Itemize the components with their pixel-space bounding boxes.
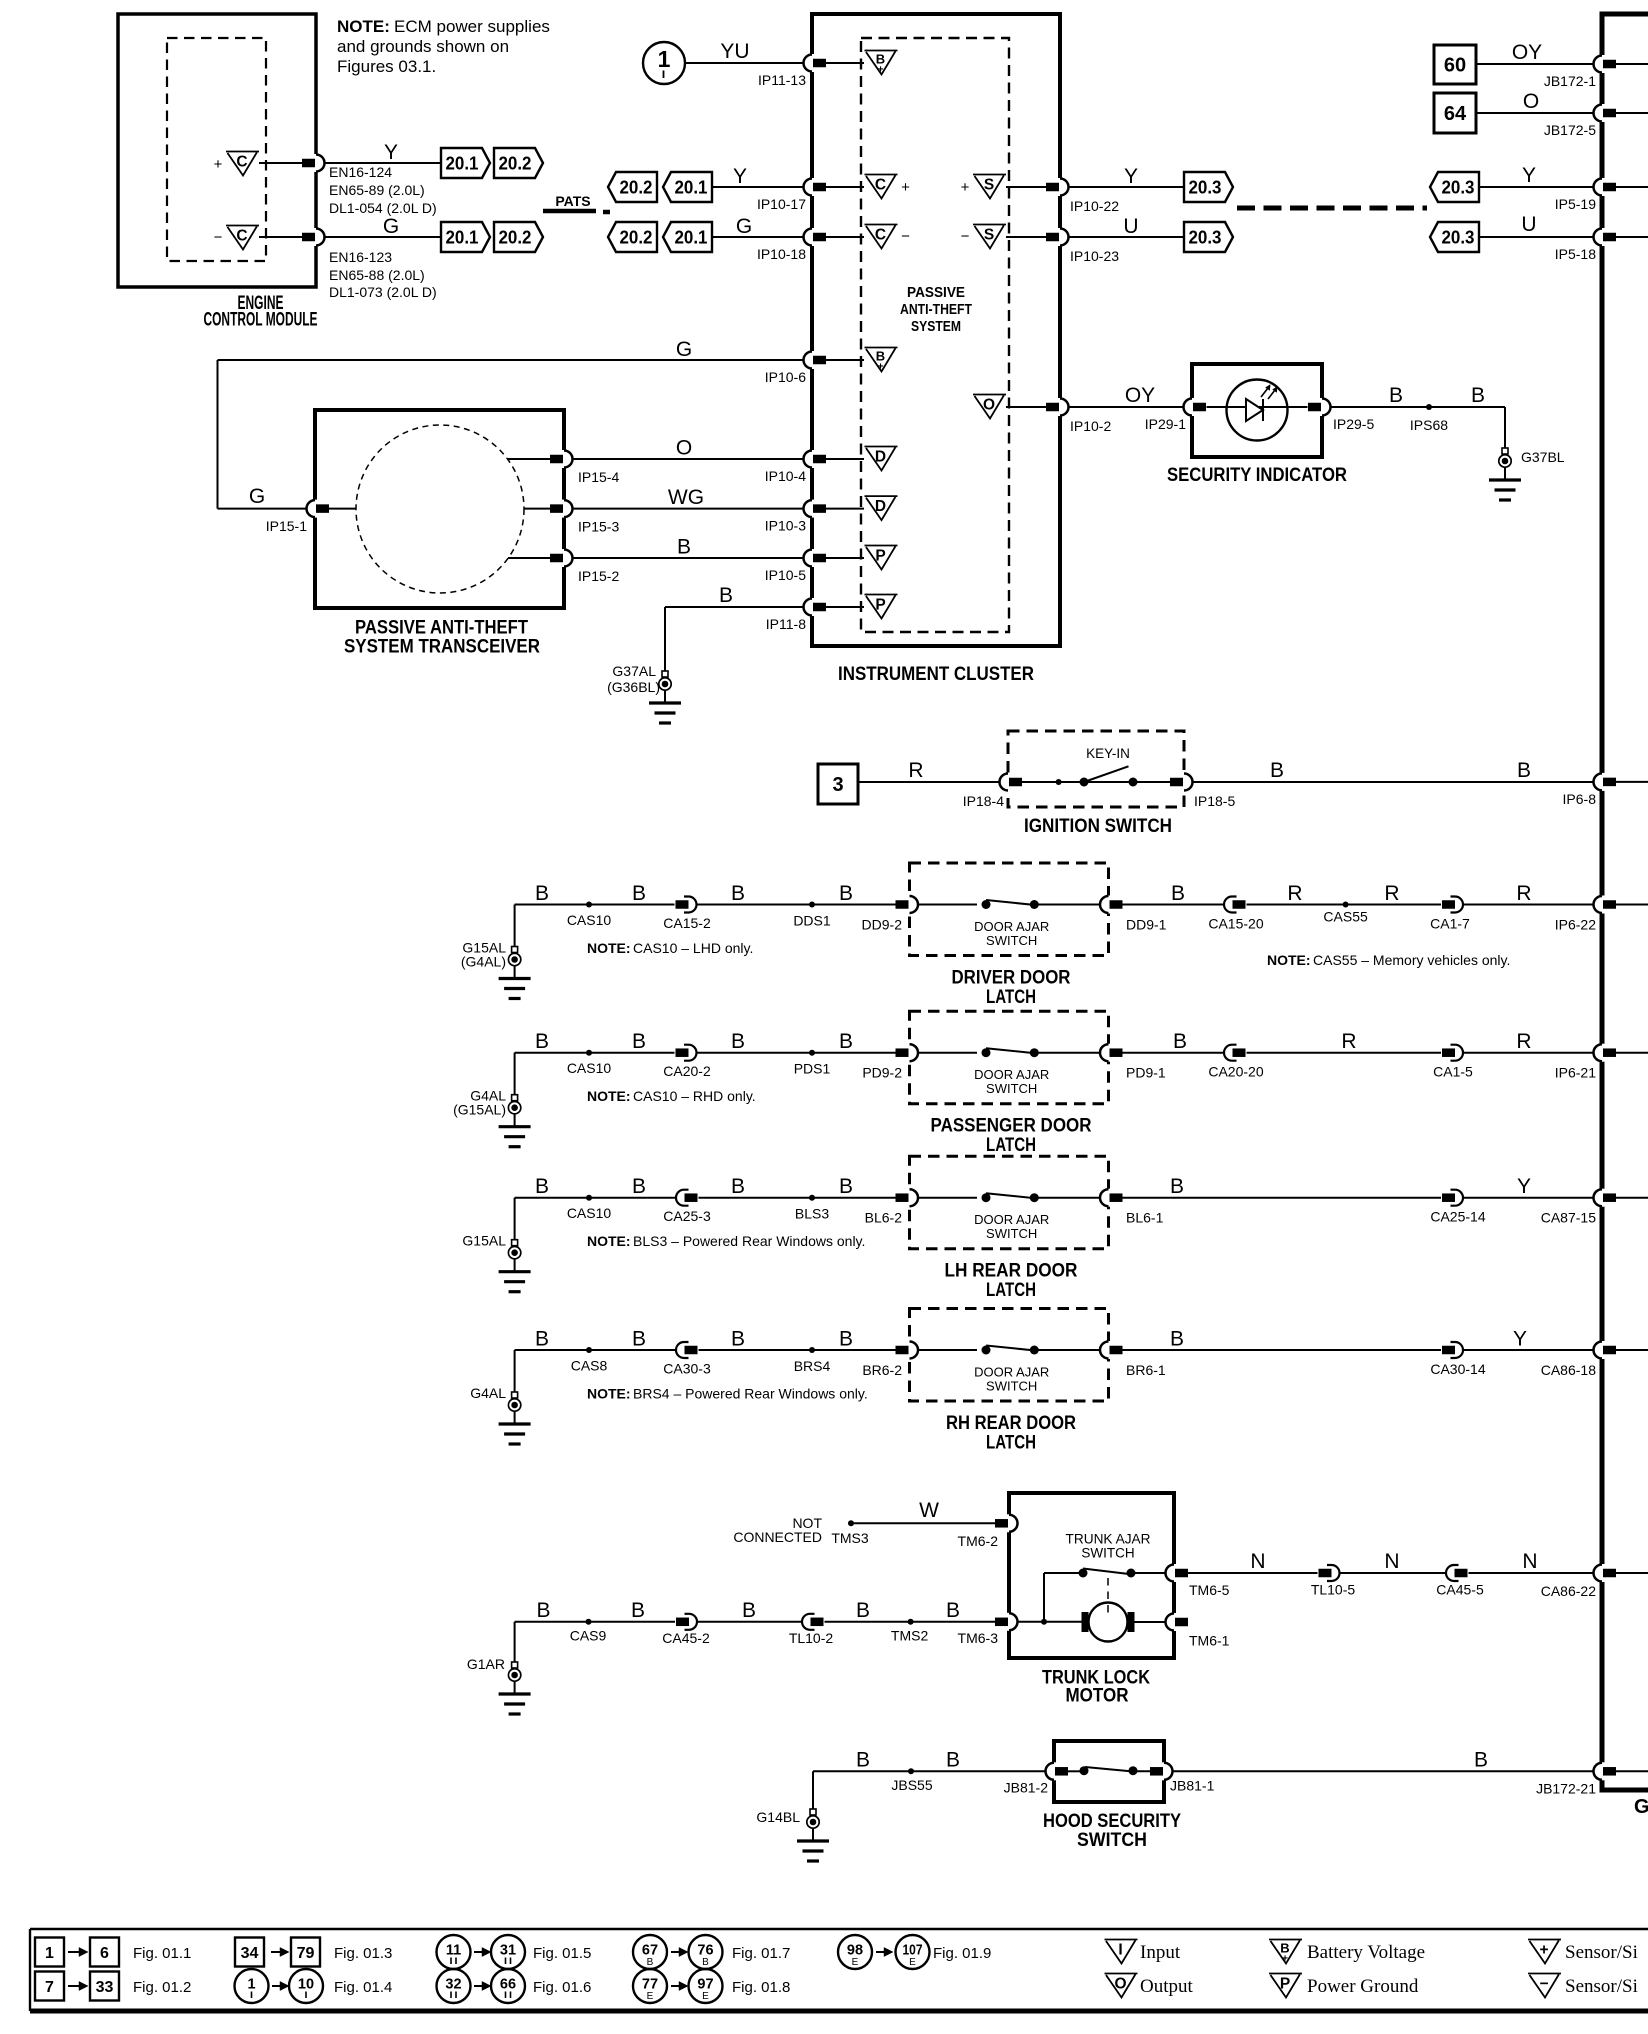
svg-text:TM6-3: TM6-3: [958, 1630, 999, 1646]
svg-text:EN65-89 (2.0L): EN65-89 (2.0L): [329, 182, 425, 198]
svg-text:20.3: 20.3: [1189, 228, 1222, 248]
svg-text:B: B: [946, 1599, 960, 1622]
svg-text:LATCH: LATCH: [986, 1135, 1036, 1156]
svg-text:B: B: [1170, 1175, 1184, 1198]
svg-text:Fig. 01.9: Fig. 01.9: [933, 1945, 991, 1962]
svg-text:CA86-22: CA86-22: [1541, 1583, 1596, 1599]
svg-text:S: S: [984, 227, 994, 244]
svg-text:+: +: [878, 362, 884, 373]
svg-text:−: −: [214, 229, 223, 246]
svg-text:BRS4: BRS4: [794, 1358, 831, 1374]
svg-text:CA20-20: CA20-20: [1208, 1064, 1263, 1080]
svg-text:SYSTEM TRANSCEIVER: SYSTEM TRANSCEIVER: [344, 637, 540, 658]
svg-text:JBS55: JBS55: [891, 1777, 932, 1793]
svg-text:DL1-054 (2.0L D): DL1-054 (2.0L D): [329, 200, 437, 216]
svg-text:PASSIVE: PASSIVE: [907, 284, 965, 301]
svg-text:SWITCH: SWITCH: [1081, 1546, 1134, 1561]
svg-text:O: O: [676, 436, 692, 459]
svg-text:JB172-1: JB172-1: [1544, 73, 1596, 89]
svg-text:DOOR AJAR: DOOR AJAR: [974, 919, 1049, 934]
svg-text:79: 79: [297, 1945, 315, 1962]
svg-text:20.1: 20.1: [675, 228, 708, 248]
svg-text:IP6-22: IP6-22: [1555, 917, 1596, 933]
svg-text:BL6-2: BL6-2: [865, 1210, 903, 1226]
svg-text:W: W: [919, 1499, 939, 1522]
svg-text:PD9-1: PD9-1: [1126, 1065, 1166, 1081]
svg-text:DOOR AJAR: DOOR AJAR: [974, 1067, 1049, 1082]
svg-text:G1AR: G1AR: [467, 1656, 505, 1672]
svg-text:B: B: [946, 1748, 960, 1771]
svg-text:34: 34: [241, 1945, 259, 1962]
svg-text:N: N: [1250, 1550, 1265, 1573]
svg-text:B: B: [731, 1328, 745, 1351]
svg-text:B: B: [535, 882, 549, 905]
svg-text:Sensor/Si: Sensor/Si: [1565, 1976, 1638, 1997]
svg-text:1: 1: [247, 1977, 255, 1993]
svg-text:60: 60: [1444, 55, 1466, 77]
svg-text:TM6-2: TM6-2: [958, 1533, 999, 1549]
svg-text:BL6-1: BL6-1: [1126, 1210, 1164, 1226]
svg-text:ECM power supplies: ECM power supplies: [394, 17, 550, 36]
svg-text:U: U: [1521, 213, 1536, 236]
svg-text:CAS9: CAS9: [570, 1628, 607, 1644]
svg-text:Y: Y: [384, 141, 398, 164]
svg-text:Battery Voltage: Battery Voltage: [1307, 1942, 1425, 1963]
svg-text:6: 6: [100, 1945, 109, 1962]
svg-text:JB172-5: JB172-5: [1544, 122, 1596, 138]
svg-text:TM6-1: TM6-1: [1189, 1633, 1230, 1649]
svg-text:O: O: [983, 397, 995, 414]
svg-text:20.1: 20.1: [446, 228, 479, 248]
svg-text:G: G: [249, 485, 265, 508]
svg-text:BLS3 – Powered Rear Windows on: BLS3 – Powered Rear Windows only.: [633, 1233, 865, 1249]
svg-text:CA45-5: CA45-5: [1436, 1582, 1484, 1598]
svg-text:Y: Y: [1517, 1175, 1531, 1198]
svg-text:20.2: 20.2: [620, 178, 653, 198]
svg-text:IP5-19: IP5-19: [1555, 196, 1596, 212]
svg-text:CA45-2: CA45-2: [662, 1630, 710, 1646]
svg-text:20.2: 20.2: [620, 228, 653, 248]
svg-text:G: G: [383, 215, 399, 238]
svg-text:S: S: [984, 177, 994, 194]
svg-text:NOTE:: NOTE:: [337, 17, 390, 36]
svg-text:B: B: [647, 1957, 654, 1968]
svg-text:N: N: [1384, 1550, 1399, 1573]
svg-text:1: 1: [658, 46, 671, 72]
svg-text:DOOR AJAR: DOOR AJAR: [974, 1212, 1049, 1227]
svg-text:O: O: [1523, 90, 1539, 113]
svg-text:D: D: [875, 498, 886, 515]
svg-text:TMS2: TMS2: [891, 1628, 929, 1644]
svg-text:TRUNK AJAR: TRUNK AJAR: [1066, 1532, 1151, 1547]
svg-text:+: +: [901, 179, 910, 196]
svg-text:P: P: [875, 548, 885, 565]
svg-text:Fig. 01.4: Fig. 01.4: [334, 1979, 392, 1996]
svg-text:WG: WG: [668, 486, 704, 509]
svg-text:TL10-2: TL10-2: [789, 1630, 834, 1646]
svg-text:B: B: [535, 1030, 549, 1053]
svg-text:B: B: [632, 882, 646, 905]
svg-text:TM6-5: TM6-5: [1189, 1582, 1230, 1598]
svg-text:SYSTEM: SYSTEM: [911, 318, 961, 335]
svg-text:G4AL: G4AL: [470, 1385, 506, 1401]
svg-text:CA86-18: CA86-18: [1541, 1362, 1596, 1378]
svg-text:BR6-2: BR6-2: [862, 1362, 902, 1378]
svg-text:IP10-22: IP10-22: [1070, 198, 1119, 214]
svg-text:NOTE:: NOTE:: [587, 1233, 631, 1249]
svg-text:LATCH: LATCH: [986, 1280, 1036, 1301]
svg-text:10: 10: [298, 1977, 314, 1993]
svg-text:7: 7: [45, 1979, 54, 1996]
svg-text:20.3: 20.3: [1442, 228, 1475, 248]
svg-text:CONTROL MODULE: CONTROL MODULE: [204, 310, 318, 331]
svg-text:G: G: [676, 338, 692, 361]
svg-text:B: B: [1171, 882, 1185, 905]
svg-text:R: R: [1287, 882, 1302, 905]
svg-text:IPS68: IPS68: [1410, 417, 1448, 433]
svg-text:B: B: [1389, 384, 1403, 407]
svg-text:G37BL: G37BL: [1521, 449, 1565, 465]
svg-text:Fig. 01.3: Fig. 01.3: [334, 1945, 392, 1962]
svg-text:R: R: [1516, 882, 1531, 905]
svg-text:E: E: [852, 1957, 859, 1968]
svg-text:G14BL: G14BL: [756, 1809, 800, 1825]
svg-text:G37AL: G37AL: [612, 663, 656, 679]
svg-text:P: P: [875, 597, 885, 614]
svg-text:CA87-15: CA87-15: [1541, 1210, 1596, 1226]
svg-text:I: I: [1118, 1942, 1122, 1959]
svg-text:CAS8: CAS8: [571, 1358, 608, 1374]
svg-text:SWITCH: SWITCH: [986, 1081, 1037, 1096]
svg-text:Input: Input: [1140, 1942, 1181, 1963]
svg-text:CONNECTED: CONNECTED: [733, 1529, 822, 1545]
svg-text:B: B: [856, 1599, 870, 1622]
svg-text:NOTE:: NOTE:: [587, 1088, 631, 1104]
svg-text:33: 33: [96, 1979, 114, 1996]
svg-text:IGNITION SWITCH: IGNITION SWITCH: [1024, 816, 1172, 837]
svg-text:CAS10: CAS10: [567, 912, 612, 928]
svg-text:BLS3: BLS3: [795, 1206, 829, 1222]
svg-text:Fig. 01.6: Fig. 01.6: [533, 1979, 591, 1996]
svg-text:CA15-20: CA15-20: [1208, 916, 1263, 932]
svg-text:IP5-18: IP5-18: [1555, 246, 1596, 262]
svg-text:YU: YU: [720, 40, 749, 63]
svg-text:U: U: [1123, 215, 1138, 238]
svg-text:G: G: [736, 215, 752, 238]
svg-text:B: B: [1471, 384, 1485, 407]
svg-text:BRS4 – Powered Rear Windows on: BRS4 – Powered Rear Windows only.: [633, 1386, 868, 1402]
svg-text:20.1: 20.1: [446, 154, 479, 174]
svg-text:IP10-17: IP10-17: [757, 196, 806, 212]
svg-text:Y: Y: [1124, 165, 1138, 188]
svg-text:IP6-21: IP6-21: [1555, 1065, 1596, 1081]
svg-text:RH REAR DOOR: RH REAR DOOR: [946, 1413, 1076, 1434]
svg-text:B: B: [677, 535, 691, 558]
svg-text:66: 66: [500, 1977, 516, 1993]
svg-text:IP18-5: IP18-5: [1194, 793, 1235, 809]
svg-text:−: −: [961, 228, 970, 245]
svg-text:Fig. 01.2: Fig. 01.2: [133, 1979, 191, 1996]
svg-text:C: C: [236, 154, 247, 171]
svg-text:B: B: [632, 1328, 646, 1351]
svg-text:−: −: [901, 228, 910, 245]
svg-text:INSTRUMENT CLUSTER: INSTRUMENT CLUSTER: [838, 664, 1034, 685]
svg-text:E: E: [909, 1957, 916, 1968]
svg-text:PD9-2: PD9-2: [862, 1065, 902, 1081]
svg-text:NOTE:: NOTE:: [587, 940, 631, 956]
svg-text:NOTE:: NOTE:: [587, 1386, 631, 1402]
svg-text:DOOR AJAR: DOOR AJAR: [974, 1365, 1049, 1380]
svg-text:31: 31: [500, 1943, 516, 1959]
svg-text:IP15-1: IP15-1: [266, 518, 307, 534]
svg-text:B: B: [731, 1030, 745, 1053]
svg-text:Sensor/Si: Sensor/Si: [1565, 1942, 1638, 1963]
svg-text:B: B: [1517, 759, 1531, 782]
svg-text:CAS55 – Memory vehicles only.: CAS55 – Memory vehicles only.: [1313, 952, 1510, 968]
svg-text:JB172-21: JB172-21: [1536, 1781, 1596, 1797]
svg-text:1: 1: [45, 1945, 54, 1962]
svg-text:IP10-5: IP10-5: [765, 567, 806, 583]
svg-text:PASSENGER DOOR: PASSENGER DOOR: [931, 1116, 1092, 1137]
svg-text:DD9-1: DD9-1: [1126, 917, 1167, 933]
svg-text:(G36BL): (G36BL): [607, 679, 660, 695]
svg-text:CA30-14: CA30-14: [1430, 1361, 1485, 1377]
svg-text:IP11-8: IP11-8: [766, 616, 806, 632]
svg-text:B: B: [1170, 1328, 1184, 1351]
svg-text:DL1-073 (2.0L D): DL1-073 (2.0L D): [329, 284, 437, 300]
svg-text:IP18-4: IP18-4: [963, 793, 1004, 809]
svg-text:CA30-3: CA30-3: [663, 1361, 711, 1377]
svg-text:B: B: [1474, 1748, 1488, 1771]
svg-text:OY: OY: [1125, 384, 1155, 407]
svg-text:B: B: [536, 1599, 550, 1622]
svg-text:B: B: [839, 882, 853, 905]
svg-text:B: B: [632, 1030, 646, 1053]
svg-text:TL10-5: TL10-5: [1311, 1582, 1356, 1598]
svg-text:+: +: [1539, 1942, 1548, 1959]
svg-text:HOOD SECURITY: HOOD SECURITY: [1043, 1811, 1181, 1832]
svg-text:N: N: [1522, 1550, 1537, 1573]
svg-text:IP10-3: IP10-3: [765, 518, 806, 534]
svg-text:MOTOR: MOTOR: [1066, 1686, 1129, 1707]
svg-text:B: B: [1173, 1030, 1187, 1053]
svg-text:B: B: [839, 1030, 853, 1053]
svg-text:CA20-2: CA20-2: [663, 1063, 711, 1079]
svg-text:PASSIVE ANTI-THEFT: PASSIVE ANTI-THEFT: [355, 618, 528, 639]
svg-text:O: O: [1114, 1976, 1126, 1993]
svg-text:E: E: [647, 1991, 654, 2002]
svg-text:B: B: [719, 584, 733, 607]
svg-text:IP29-5: IP29-5: [1333, 416, 1374, 432]
svg-text:B: B: [1270, 759, 1284, 782]
svg-text:CA1-7: CA1-7: [1430, 916, 1470, 932]
svg-text:IP10-2: IP10-2: [1070, 418, 1111, 434]
svg-text:OY: OY: [1512, 41, 1542, 64]
svg-text:Figures 03.1.: Figures 03.1.: [337, 57, 436, 76]
svg-text:SWITCH: SWITCH: [986, 933, 1037, 948]
svg-text:C: C: [236, 228, 247, 245]
svg-text:B: B: [535, 1175, 549, 1198]
svg-text:R: R: [1384, 882, 1399, 905]
svg-text:20.2: 20.2: [499, 154, 532, 174]
svg-text:32: 32: [445, 1977, 461, 1993]
svg-text:IP10-18: IP10-18: [757, 246, 806, 262]
svg-text:−: −: [1539, 1976, 1548, 1993]
svg-text:C: C: [875, 227, 886, 244]
svg-text:11: 11: [446, 1943, 461, 1959]
svg-text:G: G: [1634, 1796, 1648, 1818]
svg-text:B: B: [731, 1175, 745, 1198]
svg-text:B: B: [631, 1599, 645, 1622]
svg-text:DDS1: DDS1: [793, 913, 831, 929]
svg-text:20.1: 20.1: [675, 178, 708, 198]
svg-text:IP10-4: IP10-4: [765, 468, 806, 484]
svg-text:20.3: 20.3: [1189, 178, 1222, 198]
svg-text:SWITCH: SWITCH: [986, 1379, 1037, 1394]
svg-text:CAS10 – RHD only.: CAS10 – RHD only.: [633, 1088, 756, 1104]
svg-text:20.2: 20.2: [499, 228, 532, 248]
svg-text:Output: Output: [1140, 1976, 1194, 1997]
svg-text:EN16-123: EN16-123: [329, 249, 392, 265]
svg-text:IP10-6: IP10-6: [765, 369, 806, 385]
svg-text:SWITCH: SWITCH: [1077, 1830, 1147, 1851]
svg-text:DRIVER DOOR: DRIVER DOOR: [952, 968, 1071, 989]
svg-text:Fig. 01.5: Fig. 01.5: [533, 1945, 591, 1962]
svg-text:SECURITY INDICATOR: SECURITY INDICATOR: [1167, 465, 1347, 486]
svg-text:(G15AL): (G15AL): [453, 1102, 506, 1118]
svg-text:CA1-5: CA1-5: [1433, 1064, 1473, 1080]
svg-text:CA25-3: CA25-3: [663, 1208, 711, 1224]
svg-text:64: 64: [1444, 103, 1467, 125]
svg-text:CAS10: CAS10: [567, 1060, 612, 1076]
svg-text:+: +: [961, 179, 970, 196]
svg-text:CAS10 – LHD only.: CAS10 – LHD only.: [633, 940, 753, 956]
svg-text:KEY-IN: KEY-IN: [1086, 746, 1130, 761]
svg-text:IP15-4: IP15-4: [578, 469, 619, 485]
svg-text:Fig. 01.8: Fig. 01.8: [732, 1979, 790, 1996]
svg-text:Y: Y: [1513, 1328, 1527, 1351]
svg-text:E: E: [702, 1991, 709, 2002]
svg-text:G15AL: G15AL: [462, 1233, 506, 1249]
svg-text:SWITCH: SWITCH: [986, 1226, 1037, 1241]
svg-text:(G4AL): (G4AL): [461, 954, 506, 970]
svg-text:+: +: [878, 65, 884, 76]
svg-text:B: B: [632, 1175, 646, 1198]
svg-text:Y: Y: [1522, 164, 1536, 187]
svg-text:IP15-3: IP15-3: [578, 519, 619, 535]
svg-text:LH REAR DOOR: LH REAR DOOR: [945, 1261, 1078, 1282]
svg-text:B: B: [731, 882, 745, 905]
svg-text:B: B: [535, 1328, 549, 1351]
svg-text:EN16-124: EN16-124: [329, 164, 392, 180]
svg-text:Y: Y: [733, 165, 747, 188]
svg-text:+: +: [214, 156, 223, 173]
svg-text:LATCH: LATCH: [986, 987, 1036, 1008]
svg-text:LATCH: LATCH: [986, 1433, 1036, 1454]
svg-text:3: 3: [832, 774, 843, 796]
svg-text:B: B: [702, 1957, 709, 1968]
svg-text:NOTE:: NOTE:: [1267, 952, 1311, 968]
svg-text:IP11-13: IP11-13: [758, 72, 806, 88]
svg-text:IP29-1: IP29-1: [1145, 416, 1186, 432]
svg-text:PDS1: PDS1: [794, 1061, 831, 1077]
svg-text:Fig. 01.7: Fig. 01.7: [732, 1945, 790, 1962]
svg-text:P: P: [1280, 1976, 1290, 1993]
svg-text:B: B: [839, 1175, 853, 1198]
svg-text:CA15-2: CA15-2: [663, 915, 711, 931]
svg-text:B: B: [742, 1599, 756, 1622]
svg-text:B: B: [839, 1328, 853, 1351]
svg-text:and grounds shown on: and grounds shown on: [337, 37, 509, 56]
svg-text:Power Ground: Power Ground: [1307, 1976, 1419, 1997]
svg-text:R: R: [1341, 1030, 1356, 1053]
svg-text:Fig. 01.1: Fig. 01.1: [133, 1945, 191, 1962]
svg-text:CAS55: CAS55: [1323, 909, 1368, 925]
svg-text:20.3: 20.3: [1442, 178, 1475, 198]
svg-text:B: B: [856, 1748, 870, 1771]
svg-text:EN65-88 (2.0L): EN65-88 (2.0L): [329, 267, 425, 283]
svg-text:PATS: PATS: [555, 193, 590, 209]
svg-text:R: R: [908, 759, 923, 782]
svg-text:CAS10: CAS10: [567, 1205, 612, 1221]
svg-text:BR6-1: BR6-1: [1126, 1362, 1166, 1378]
svg-text:JB81-1: JB81-1: [1170, 1778, 1215, 1794]
svg-text:IP15-2: IP15-2: [578, 568, 619, 584]
svg-text:IP6-8: IP6-8: [1563, 791, 1597, 807]
svg-text:IP10-23: IP10-23: [1070, 248, 1119, 264]
svg-text:JB81-2: JB81-2: [1004, 1780, 1049, 1796]
svg-text:+: +: [1282, 1954, 1288, 1965]
svg-text:TMS3: TMS3: [831, 1530, 869, 1546]
svg-text:R: R: [1516, 1030, 1531, 1053]
svg-text:DD9-2: DD9-2: [862, 917, 903, 933]
svg-text:CA25-14: CA25-14: [1430, 1209, 1485, 1225]
svg-text:C: C: [875, 177, 886, 194]
svg-text:D: D: [875, 449, 886, 466]
svg-text:ANTI-THEFT: ANTI-THEFT: [900, 301, 972, 318]
